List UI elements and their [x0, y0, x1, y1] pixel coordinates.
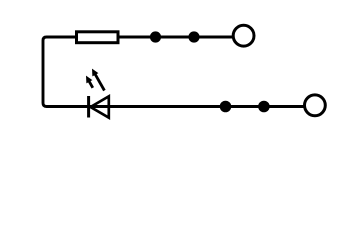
terminal: bottom open circle — [305, 95, 326, 116]
LED D1: triangle — [91, 96, 109, 117]
LED D1: light arrow 1 shaft — [89, 81, 93, 87]
LED D1: light arrow 1 head — [86, 76, 92, 84]
wire: top rail from resistor branch corner to top terminal — [43, 37, 313, 107]
node: junction dot 1 on bottom rail — [220, 101, 232, 113]
resistor R1 — [77, 32, 119, 43]
LED D1: light arrow 2 shaft — [95, 74, 104, 90]
node: junction dot 1 on top rail — [150, 31, 161, 42]
terminal: top open circle — [233, 25, 254, 46]
LED D1: cathode bar — [87, 96, 90, 118]
node: junction dot 2 on top rail — [188, 31, 199, 42]
LED D1: light arrow 2 head — [92, 69, 98, 77]
node: junction dot 2 on bottom rail — [258, 101, 270, 113]
